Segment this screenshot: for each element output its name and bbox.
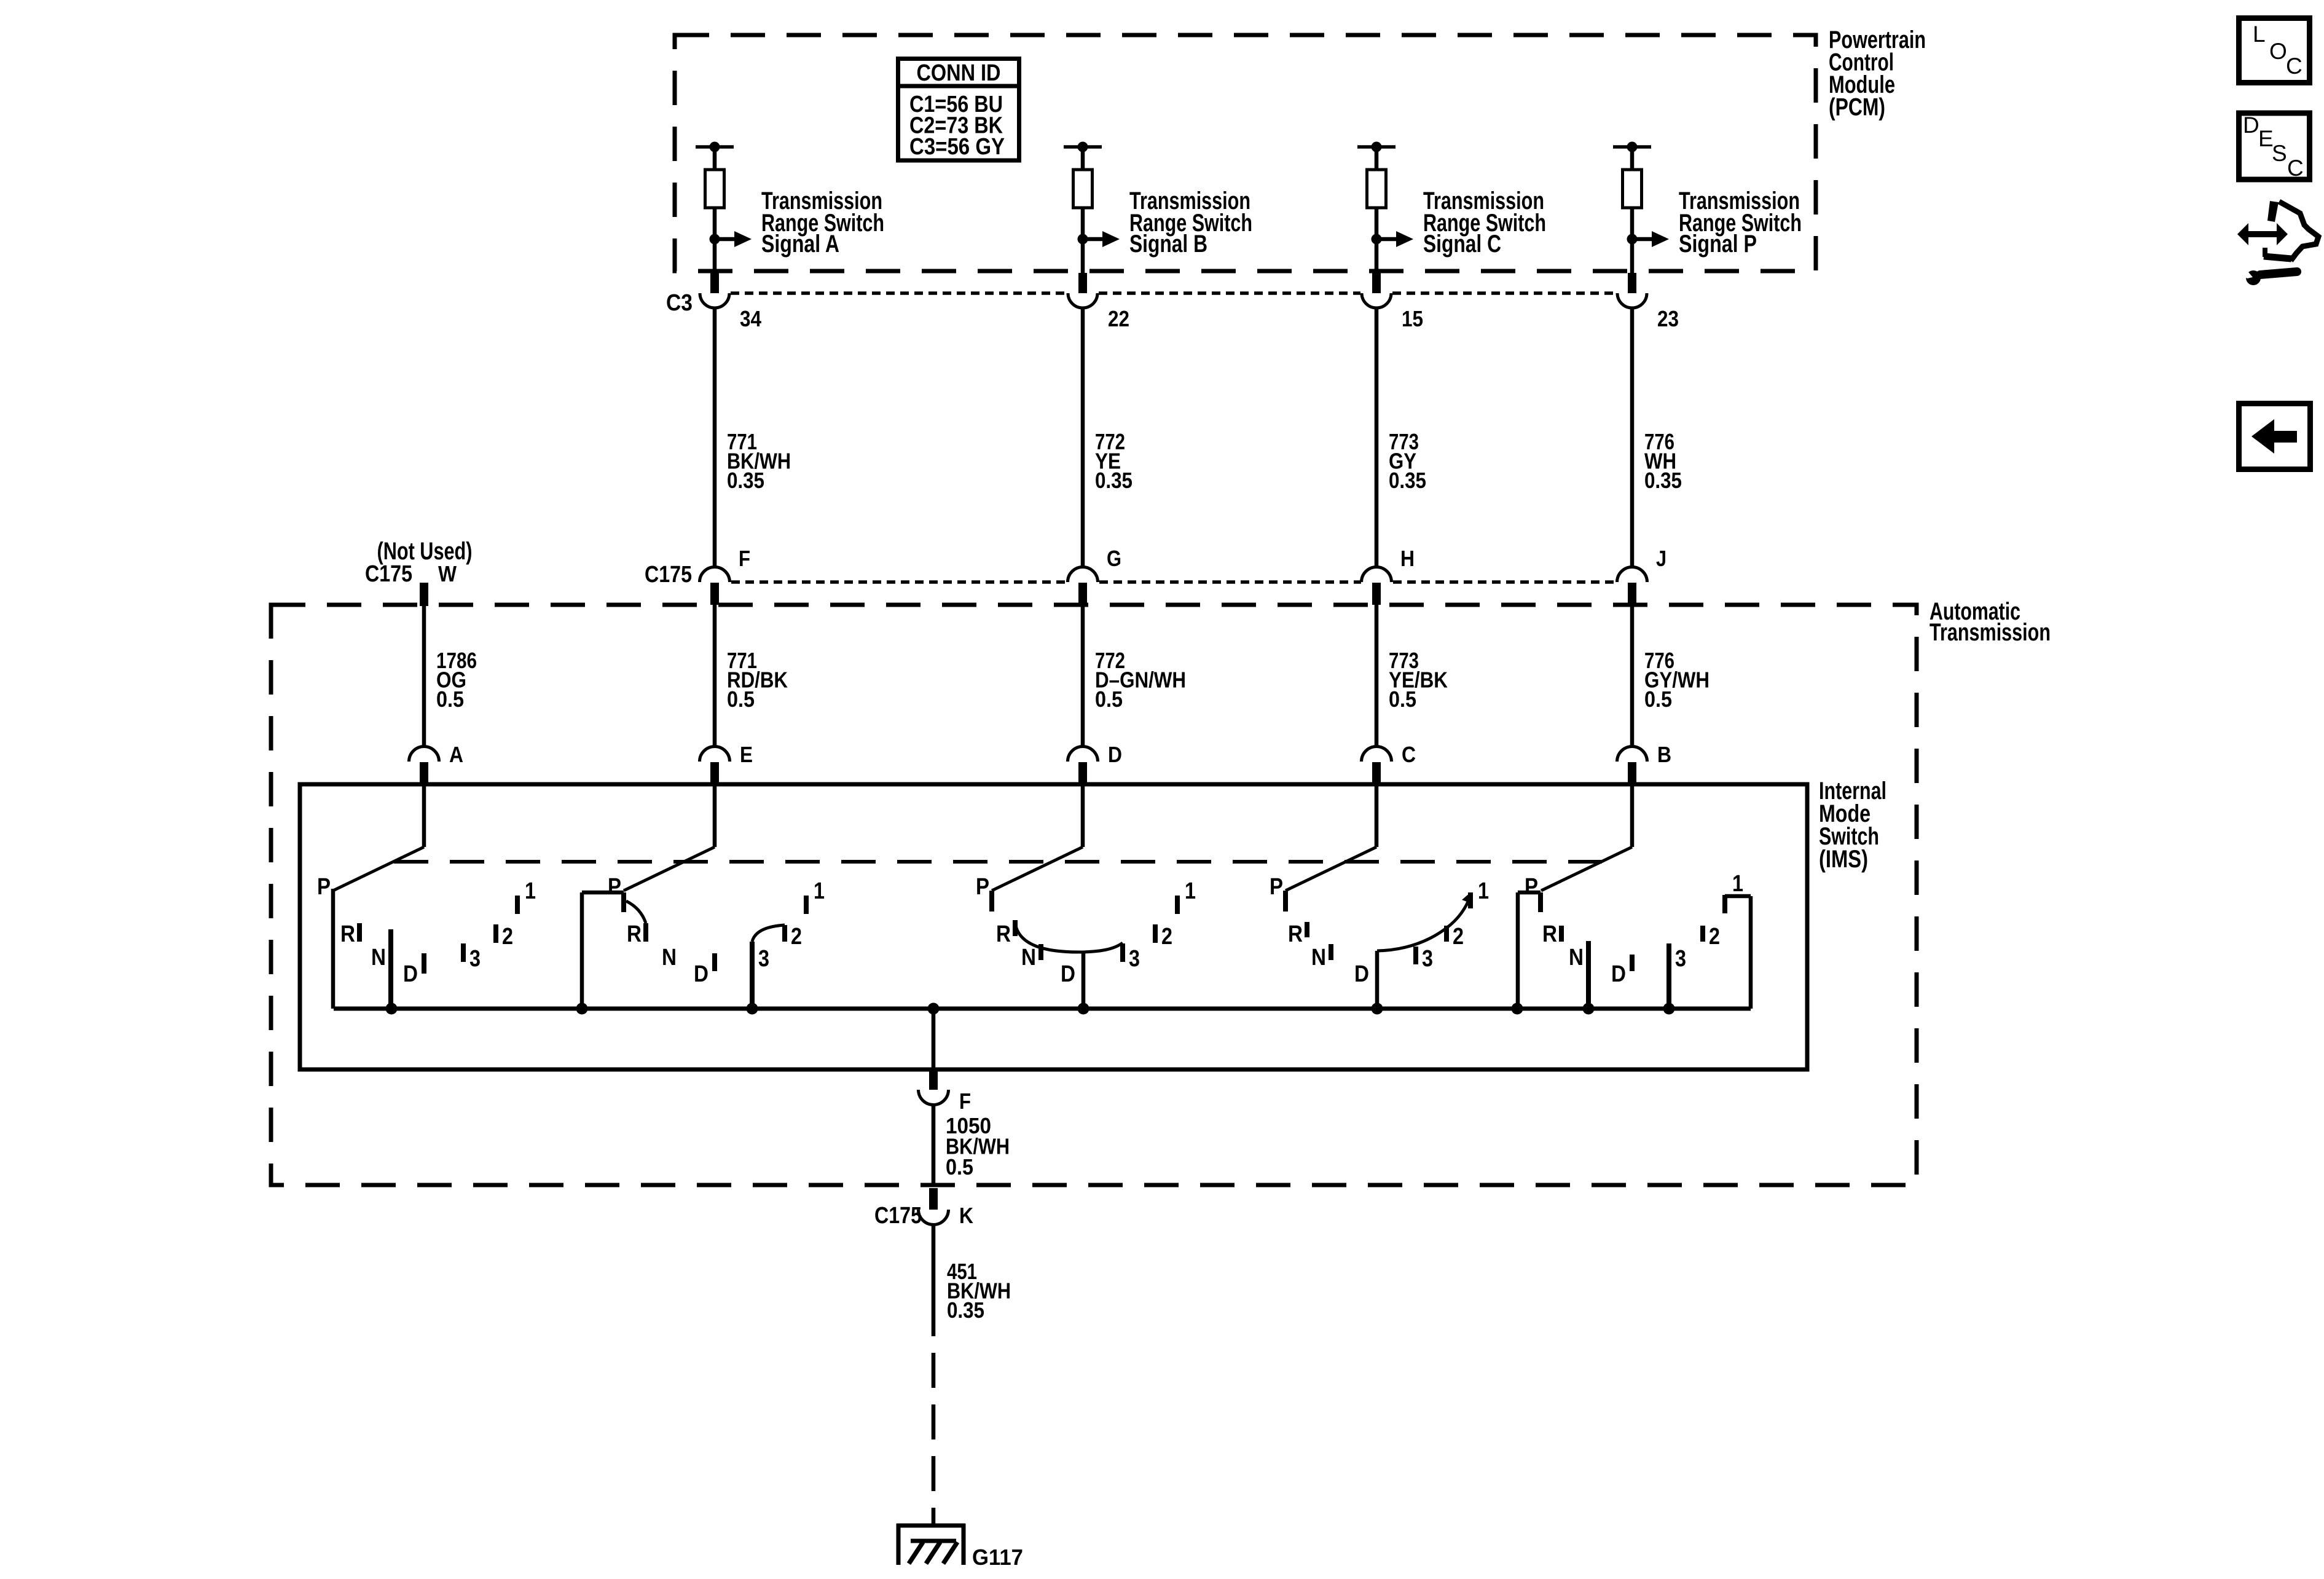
svg-text:F: F — [739, 546, 750, 571]
svg-text:22: 22 — [1108, 306, 1129, 331]
svg-text:N: N — [662, 945, 677, 971]
svg-text:1: 1 — [814, 878, 825, 904]
svg-text:0.5: 0.5 — [436, 687, 464, 712]
svg-text:1: 1 — [525, 878, 536, 904]
svg-text:D: D — [1061, 961, 1075, 987]
svg-text:J: J — [1656, 546, 1666, 571]
svg-text:2: 2 — [502, 924, 513, 950]
svg-text:D: D — [2243, 112, 2259, 138]
svg-text:C: C — [2286, 53, 2302, 79]
svg-text:R: R — [1288, 921, 1303, 947]
svg-text:0.35: 0.35 — [1095, 468, 1133, 493]
svg-text:R: R — [1542, 921, 1557, 947]
svg-text:C: C — [2287, 156, 2304, 181]
svg-text:G117: G117 — [972, 1545, 1023, 1570]
svg-text:0.5: 0.5 — [946, 1154, 973, 1179]
svg-text:(PCM): (PCM) — [1829, 94, 1885, 121]
svg-text:B: B — [1657, 742, 1671, 767]
svg-text:0.5: 0.5 — [727, 687, 755, 712]
svg-text:Signal B: Signal B — [1129, 230, 1207, 258]
svg-text:C: C — [1402, 742, 1416, 767]
svg-text:2: 2 — [1709, 924, 1720, 950]
svg-text:C175: C175 — [645, 562, 692, 588]
svg-text:0.5: 0.5 — [1644, 687, 1672, 712]
svg-text:E: E — [2258, 126, 2274, 151]
svg-text:0.35: 0.35 — [947, 1297, 984, 1323]
svg-text:D: D — [694, 961, 709, 987]
svg-text:23: 23 — [1657, 306, 1679, 331]
svg-text:0.5: 0.5 — [1095, 687, 1123, 712]
svg-text:2: 2 — [1161, 924, 1172, 950]
svg-text:P: P — [608, 874, 621, 900]
svg-text:R: R — [340, 921, 355, 947]
svg-text:N: N — [1021, 945, 1036, 971]
svg-text:O: O — [2269, 39, 2287, 64]
svg-text:W: W — [438, 561, 457, 586]
svg-text:C175: C175 — [874, 1203, 922, 1229]
svg-text:D: D — [1611, 961, 1626, 987]
svg-text:N: N — [1569, 945, 1584, 971]
svg-text:2: 2 — [1453, 924, 1464, 950]
svg-text:K: K — [959, 1203, 973, 1228]
svg-text:15: 15 — [1402, 306, 1423, 331]
svg-text:G: G — [1107, 546, 1121, 571]
svg-text:F: F — [959, 1089, 971, 1114]
svg-text:D: D — [1108, 742, 1122, 767]
svg-text:0.5: 0.5 — [1389, 687, 1416, 712]
svg-text:H: H — [1400, 546, 1415, 571]
svg-text:Signal A: Signal A — [761, 230, 839, 258]
svg-text:N: N — [1311, 945, 1326, 971]
svg-text:E: E — [740, 742, 753, 767]
svg-text:3: 3 — [1675, 946, 1686, 972]
svg-text:(IMS): (IMS) — [1819, 846, 1868, 873]
svg-text:0.35: 0.35 — [727, 468, 764, 493]
svg-text:N: N — [371, 945, 386, 971]
svg-text:P: P — [976, 874, 989, 900]
svg-text:D: D — [403, 961, 418, 987]
svg-text:C3=56 GY: C3=56 GY — [909, 134, 1005, 160]
svg-text:R: R — [996, 921, 1011, 947]
svg-text:2: 2 — [791, 924, 802, 950]
svg-text:Transmission: Transmission — [1929, 619, 2051, 646]
svg-text:C3: C3 — [666, 290, 693, 316]
svg-text:3: 3 — [1422, 946, 1433, 972]
svg-text:1: 1 — [1185, 878, 1196, 904]
svg-text:P: P — [1525, 874, 1538, 900]
svg-text:0.35: 0.35 — [1389, 468, 1426, 493]
svg-text:CONN ID: CONN ID — [917, 60, 1001, 86]
svg-text:3: 3 — [469, 946, 481, 972]
svg-text:3: 3 — [758, 946, 769, 972]
svg-text:A: A — [449, 742, 463, 767]
svg-text:3: 3 — [1129, 946, 1140, 972]
svg-text:Signal C: Signal C — [1423, 230, 1501, 258]
svg-text:P: P — [317, 874, 331, 900]
svg-text:C175: C175 — [365, 561, 412, 587]
svg-text:S: S — [2272, 141, 2287, 166]
svg-text:D: D — [1354, 961, 1369, 987]
svg-text:R: R — [627, 921, 642, 947]
svg-text:Signal P: Signal P — [1679, 230, 1757, 258]
svg-text:1: 1 — [1478, 878, 1489, 904]
svg-text:P: P — [1270, 874, 1283, 900]
svg-text:L: L — [2253, 22, 2266, 47]
svg-text:0.35: 0.35 — [1644, 468, 1682, 493]
svg-text:1: 1 — [1732, 871, 1743, 897]
svg-text:34: 34 — [740, 306, 761, 331]
